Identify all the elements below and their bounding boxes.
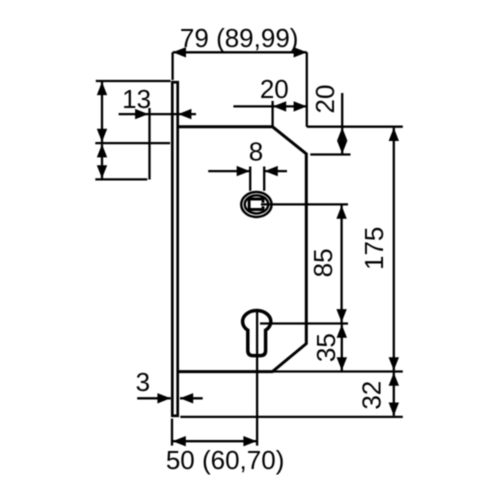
svg-text:175: 175	[359, 227, 389, 270]
svg-text:85: 85	[308, 248, 338, 277]
svg-text:8: 8	[249, 136, 263, 166]
svg-text:79 (89,99): 79 (89,99)	[180, 23, 299, 53]
svg-text:50 (60,70): 50 (60,70)	[166, 445, 285, 475]
svg-text:13: 13	[122, 84, 151, 114]
svg-text:35: 35	[311, 333, 341, 362]
svg-text:20: 20	[310, 85, 340, 114]
svg-text:32: 32	[357, 381, 387, 410]
svg-text:3: 3	[136, 367, 150, 397]
svg-text:20: 20	[260, 74, 289, 104]
